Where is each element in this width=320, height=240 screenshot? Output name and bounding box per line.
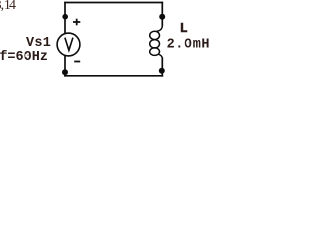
svg-text:4: 4 bbox=[9, 0, 16, 13]
svg-text:2.0mH: 2.0mH bbox=[167, 37, 211, 52]
svg-text:Vs1: Vs1 bbox=[26, 36, 51, 51]
svg-text:L: L bbox=[180, 22, 188, 37]
svg-text:f=60Hz: f=60Hz bbox=[0, 50, 48, 65]
